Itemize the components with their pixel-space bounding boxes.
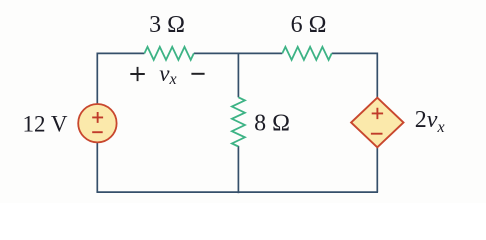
dependent source U1 diamond 2vx [351, 98, 403, 148]
U1 minus sign [371, 133, 383, 135]
svg-text:2vx: 2vx [415, 107, 445, 136]
U1 plus sign [372, 108, 383, 119]
resistor R2 6 ohm zigzag [282, 47, 331, 60]
resistor R3 8 ohm vertical zigzag [232, 97, 245, 146]
svg-text:6 Ω: 6 Ω [291, 12, 327, 38]
V1 minus sign [92, 131, 103, 133]
wire left rail bottom [96, 142, 98, 192]
svg-text:3 Ω: 3 Ω [149, 12, 185, 38]
wire top-left segment with left rail top [97, 53, 144, 104]
vx polarity plus sign [130, 67, 145, 81]
svg-text:8 Ω: 8 Ω [254, 111, 290, 137]
svg-text:vx: vx [159, 61, 176, 88]
vx polarity minus sign [191, 73, 204, 75]
wire middle branch upper [237, 53, 239, 97]
wire middle branch lower [237, 146, 239, 193]
V1 plus sign [92, 112, 103, 123]
wire bottom rail [96, 191, 378, 193]
wire right rail bottom [376, 147, 378, 192]
svg-text:12 V: 12 V [23, 112, 68, 137]
wire top-right segment with right rail top [332, 53, 378, 97]
wire top-middle segment between R1 and R2 [194, 52, 282, 54]
voltage source V1 12 V circle [78, 104, 116, 142]
resistor R1 3 ohm zigzag [144, 47, 193, 60]
